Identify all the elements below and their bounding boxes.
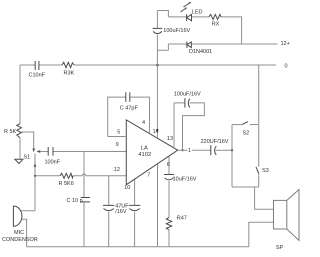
svg-text:S3: S3 (262, 168, 269, 174)
svg-text:C10nF: C10nF (29, 73, 46, 79)
svg-text:9: 9 (116, 142, 119, 148)
svg-text:6: 6 (167, 162, 170, 168)
svg-text:4: 4 (142, 120, 145, 126)
svg-text:S1: S1 (24, 155, 31, 161)
svg-text:100uF/16V: 100uF/16V (163, 28, 190, 34)
svg-text:220UF/16V: 220UF/16V (201, 139, 229, 145)
svg-text:S2: S2 (243, 131, 250, 137)
svg-text:1: 1 (188, 148, 191, 154)
svg-text:R3K: R3K (64, 71, 75, 77)
svg-text:CONDENSOR: CONDENSOR (2, 237, 38, 243)
svg-text:12+: 12+ (281, 41, 290, 47)
svg-text:100nF: 100nF (45, 160, 61, 166)
svg-text:SP: SP (276, 245, 284, 251)
svg-text:LED: LED (192, 9, 203, 15)
svg-text:10uF/16V: 10uF/16V (173, 177, 197, 183)
svg-text:0: 0 (285, 64, 288, 70)
svg-text:RX: RX (212, 22, 220, 28)
svg-text:C 47pF: C 47pF (120, 106, 139, 112)
svg-text:12: 12 (114, 167, 120, 173)
svg-text:MIC: MIC (14, 230, 24, 236)
svg-text:/16V: /16V (115, 209, 127, 215)
svg-text:14: 14 (153, 129, 159, 135)
svg-text:C 10 p: C 10 p (67, 198, 83, 204)
svg-text:7: 7 (147, 172, 150, 178)
svg-text:R47: R47 (177, 215, 187, 221)
svg-text:LA: LA (141, 146, 148, 152)
svg-text:D1N4001: D1N4001 (189, 49, 212, 55)
svg-text:4102: 4102 (138, 152, 151, 158)
svg-text:R 5K6: R 5K6 (59, 181, 74, 187)
svg-text:10: 10 (124, 185, 130, 191)
svg-text:5: 5 (117, 130, 120, 136)
svg-text:R 5K: R 5K (4, 129, 17, 135)
svg-text:100uF/16V: 100uF/16V (174, 92, 201, 98)
svg-text:13: 13 (167, 136, 173, 142)
